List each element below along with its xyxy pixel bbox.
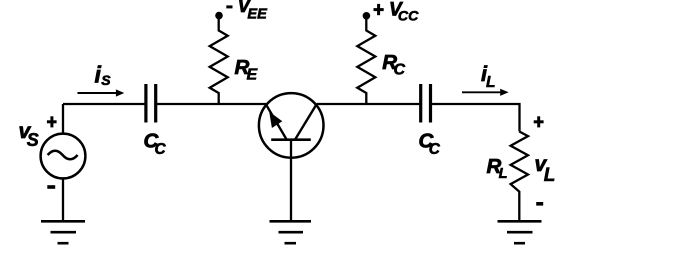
- + polarity of source: [47, 116, 57, 127]
- label iL: [481, 62, 495, 91]
- svg-text:C: C: [155, 141, 167, 158]
- wire: output capacitor to load: [432, 104, 520, 132]
- - polarity of source: [47, 185, 55, 189]
- label CC (input): [144, 129, 167, 158]
- label CC (output): [419, 129, 441, 158]
- capacitor CC (input): [146, 84, 156, 123]
- svg-text:L: L: [544, 165, 556, 186]
- ground (load): [498, 221, 542, 243]
- supply terminal +VCC: [363, 12, 371, 20]
- resistor RC: [357, 18, 375, 104]
- current arrow iS: [78, 89, 125, 96]
- ground (base): [270, 221, 312, 243]
- svg-text:E: E: [247, 66, 259, 83]
- resistor RL: [511, 132, 528, 222]
- resistor RE: [210, 18, 228, 104]
- - polarity at load: [536, 202, 543, 206]
- svg-text:L: L: [499, 166, 508, 182]
- svg-text:S: S: [27, 130, 39, 150]
- supply terminal -VEE: [215, 12, 223, 20]
- label vL: [535, 153, 556, 186]
- capacitor CC (output): [421, 84, 431, 123]
- wire: source to input capacitor: [63, 103, 145, 105]
- voltage source VS: [41, 134, 86, 179]
- label +VCC: [374, 0, 420, 25]
- label RL: [487, 155, 508, 182]
- svg-text:CC: CC: [398, 9, 419, 25]
- + polarity at load: [534, 116, 544, 127]
- wire: source top lead: [62, 104, 64, 133]
- svg-text:S: S: [101, 72, 111, 88]
- svg-text:C: C: [394, 61, 406, 78]
- label RC: [382, 51, 405, 79]
- transistor Q1: [259, 93, 324, 158]
- label RE: [235, 56, 259, 83]
- label -VEE: [226, 0, 268, 22]
- wire: capacitor to emitter: [157, 103, 266, 105]
- svg-text:C: C: [429, 141, 441, 158]
- wire: base to ground: [290, 140, 292, 221]
- ground (source): [41, 221, 85, 243]
- svg-text:EE: EE: [247, 6, 268, 22]
- svg-text:L: L: [486, 74, 495, 91]
- wire: collector to output capacitor: [317, 103, 420, 105]
- current arrow iL: [462, 89, 509, 96]
- label iS: [95, 62, 112, 88]
- label vS: [19, 120, 39, 150]
- wire: source bottom lead: [62, 179, 64, 221]
